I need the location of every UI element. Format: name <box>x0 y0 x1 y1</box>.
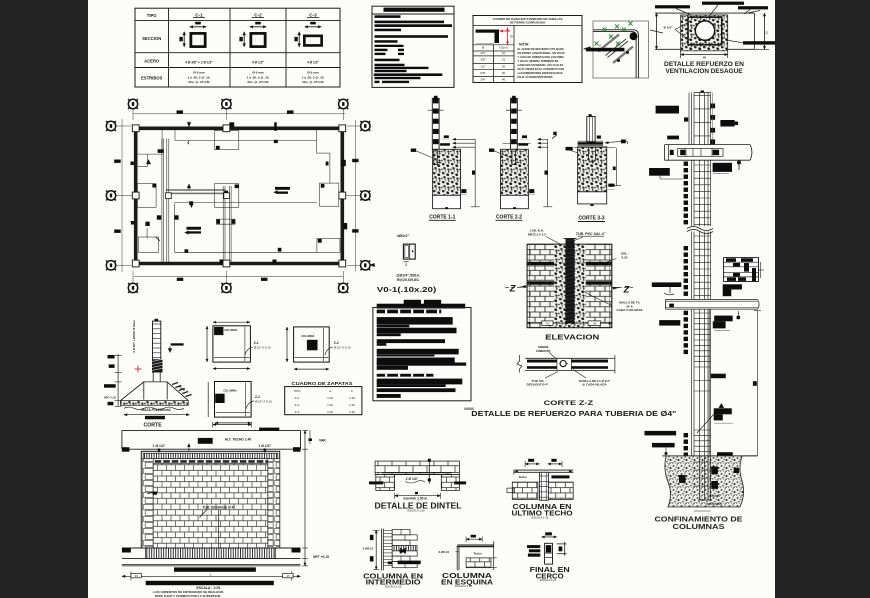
svg-text:Y LOSA DE CIMENTACION, COLUMNA: Y LOSA DE CIMENTACION, COLUMNA <box>518 55 565 59</box>
plan npt label right room <box>275 187 290 190</box>
svg-text:COLUMNAS: COLUMNAS <box>673 524 725 531</box>
esquina right dim line <box>493 541 495 570</box>
svg-text:CORTE: CORTE <box>144 422 163 428</box>
plan left dim squares <box>114 160 121 163</box>
svg-text:Z-1: Z-1 <box>295 396 300 400</box>
tall section column bars lower <box>691 309 693 456</box>
CORTE 3-3 column stem <box>587 117 595 143</box>
svg-text:NOTA:: NOTA: <box>519 43 529 47</box>
CORTE 2-2 right dimension line <box>547 139 549 207</box>
CORTE 2-2 solera black cap <box>518 143 528 146</box>
elevacion solera bands <box>527 262 612 265</box>
panel top hatched band <box>143 453 278 459</box>
svg-text:COLUMNA: COLUMNA <box>223 388 236 392</box>
CORTE 3-3 cap bar <box>578 142 604 145</box>
vent left dimension line <box>656 13 658 49</box>
panel right dimension line <box>304 430 306 566</box>
CORTE 2-2 dowels into footing <box>511 149 513 164</box>
svg-text:1.20: 1.20 <box>349 410 355 414</box>
tall section soil stirrup squares <box>711 466 718 474</box>
svg-text:Ø 6 mm: Ø 6 mm <box>252 71 264 75</box>
corte zz end extension lines <box>608 357 615 359</box>
svg-text:1 a .05, 5 @ .10,: 1 a .05, 5 @ .10, <box>302 75 325 79</box>
svg-text:Z: Z <box>509 284 517 295</box>
section sketch C-2 <box>250 26 266 28</box>
white drawing sheet <box>88 0 775 598</box>
svg-text:1 a .05, 5 @ .10,: 1 a .05, 5 @ .10, <box>247 75 270 79</box>
plan bottom-right footing rect <box>317 238 340 252</box>
panel outer frame <box>141 451 279 548</box>
svg-text:1.00: 1.00 <box>327 410 333 414</box>
tall section below lower beam labels <box>659 320 680 326</box>
svg-text:1 a .05, 5 @ .10,: 1 a .05, 5 @ .10, <box>188 75 211 79</box>
final cerco column <box>545 543 553 564</box>
svg-text:SECCION: SECCION <box>142 36 161 41</box>
zapata Z-3 column black square <box>307 340 318 351</box>
CORTE 3-3 footing-side black bar <box>608 184 614 187</box>
svg-text:ESCALA 1:25: ESCALA 1:25 <box>532 515 549 519</box>
svg-text:.15: .15 <box>286 574 290 578</box>
panel top dimension arrow <box>213 424 252 426</box>
svg-text:40: 40 <box>502 78 506 82</box>
dintel lintel bar <box>382 472 452 474</box>
plan npt label left room <box>187 227 202 230</box>
plan grid lines <box>132 109 134 120</box>
left corte footing slope right with hatch <box>167 382 188 401</box>
svg-text:1.20: 1.20 <box>349 396 355 400</box>
panel top black label <box>198 438 213 444</box>
final cerco right bracket symbol <box>557 543 567 545</box>
svg-text:TUB. PVC SAL 4": TUB. PVC SAL 4" <box>576 232 606 236</box>
plan left double-line flank squares <box>157 215 161 219</box>
svg-text:NFC=-1.20: NFC=-1.20 <box>104 397 116 400</box>
panel ground lines <box>122 547 301 549</box>
svg-text:Techo: Techo <box>473 552 482 556</box>
corner bar horizontal leg <box>593 29 633 31</box>
CORTE 2-2 left label <box>489 149 494 152</box>
svg-text:SE PLASMAN EN EL CONCRETO CON: SE PLASMAN EN EL CONCRETO CON <box>518 67 565 71</box>
svg-text:1.00: 1.00 <box>327 396 333 400</box>
ultimo techo left bricks <box>512 482 538 499</box>
left corte bottom dimension <box>124 414 190 416</box>
corner dowel end dots <box>626 51 629 54</box>
svg-text:2: 2 <box>405 263 407 267</box>
panel bottom dimension line <box>122 575 301 577</box>
svg-text:MAZA P=100k/cm2: MAZA P=100k/cm2 <box>141 408 170 412</box>
elevacion bottom dimension boxes <box>527 322 612 324</box>
svg-text:5/8": 5/8" <box>480 71 485 75</box>
CORTE 3-3 left label <box>566 147 573 151</box>
svg-text:Z-2: Z-2 <box>255 395 260 399</box>
corte zz bottom black band <box>527 366 557 369</box>
plan grid markers left column <box>106 121 115 130</box>
svg-text:3/4": 3/4" <box>480 78 485 82</box>
left corte underground squiggle <box>124 407 184 410</box>
left corte down arrow and label <box>171 343 184 345</box>
vent duct circle <box>695 21 714 40</box>
final cerco left text lines <box>527 545 540 548</box>
panel left Y tick <box>148 492 156 494</box>
svg-text:ESCALA 1:25: ESCALA 1:25 <box>540 578 557 582</box>
panel right dim extra vline <box>309 430 311 444</box>
svg-text:Techo: Techo <box>518 475 527 479</box>
CORTE 3-3 right annotation <box>621 140 626 144</box>
dintel right pier bricks <box>441 475 459 491</box>
spec notes box <box>372 6 454 87</box>
CORTE 2-2 ground line <box>506 109 522 111</box>
spec notes text bars <box>375 15 401 18</box>
plan center white node square <box>224 193 230 199</box>
spec2 box frame <box>373 308 471 401</box>
plan bottom dimension line <box>134 276 343 278</box>
ultimo techo center column ladder <box>539 472 548 500</box>
intermedio left dim line <box>375 530 377 569</box>
corte zz wall lines <box>525 357 608 359</box>
CORTE 2-2 footing stipple <box>501 149 529 195</box>
svg-text:.25: .25 <box>765 31 769 35</box>
svg-text:G(cm): G(cm) <box>499 46 507 50</box>
svg-text:0.20: 0.20 <box>621 255 627 259</box>
svg-text:10: 10 <box>502 51 506 55</box>
CORTE 2-2 footing bottom tick <box>513 207 516 209</box>
CORTE 3-3 dowel hook <box>589 147 596 162</box>
intermedio small labels <box>388 562 392 565</box>
svg-text:CADA 3 HILADAS: CADA 3 HILADAS <box>616 308 642 312</box>
svg-text:2 Ø6.10: 2 Ø6.10 <box>363 546 374 550</box>
CORTE 3-3 footing stipple <box>578 147 607 192</box>
dintel side labels <box>369 481 383 484</box>
panel center up arrow <box>188 445 190 452</box>
esquina wall verticals <box>456 546 458 571</box>
svg-text:CORTE 3-3: CORTE 3-3 <box>578 216 604 222</box>
ganchos sub-table <box>493 45 495 83</box>
CORTE 3-3 right dimension line <box>616 148 618 186</box>
ultimo techo top dim squares <box>528 459 534 462</box>
section sketch C-3 <box>305 26 321 28</box>
svg-text:3/8": 3/8" <box>480 58 485 62</box>
CORTE 2-2 level line <box>503 143 531 145</box>
corte zz top black band <box>527 360 557 363</box>
tall section column bars mid <box>691 160 693 226</box>
spec2 header bars above box <box>404 300 421 305</box>
detail pointer arrow <box>584 47 591 51</box>
corner bend filled circle <box>630 32 638 40</box>
CORTE 1-1 right dimension line <box>474 139 476 207</box>
svg-text:30: 30 <box>502 71 506 75</box>
tall section mid-left long label <box>652 282 682 287</box>
svg-text:TIPO: TIPO <box>147 13 158 18</box>
zapata Z-2 bottom dimension <box>215 422 251 424</box>
tall section label right upper <box>720 120 734 127</box>
plan top-mid black square above wall <box>229 122 234 126</box>
ultimo techo dim lines <box>525 463 539 465</box>
svg-text:2 Ø6.10: 2 Ø6.10 <box>438 550 449 554</box>
tall section column bars lower-mid <box>691 232 693 300</box>
elevacion concrete stipple around pipe <box>554 244 586 328</box>
zapata Z-2 outline <box>215 382 252 418</box>
CORTE 1-1 footing below <box>433 195 461 208</box>
plan outer wall left <box>134 127 138 266</box>
plan center bracket node <box>216 218 235 220</box>
plan interior left double vertical lines <box>161 139 163 264</box>
svg-text:CORTE 2-2: CORTE 2-2 <box>496 214 522 220</box>
spec notes title bar <box>384 8 445 12</box>
zapata Z-1 bottom dimension <box>213 368 250 370</box>
vent right dimension line <box>754 13 756 49</box>
svg-text:ESCALA 1:25: ESCALA 1:25 <box>385 584 402 588</box>
svg-text:Rto. @ .25 C/E: Rto. @ .25 C/E <box>302 80 323 84</box>
svg-text:1.00: 1.00 <box>327 403 333 407</box>
svg-text:NPT +0.15: NPT +0.15 <box>313 555 329 559</box>
plan outer wall right <box>340 127 344 266</box>
tall section bars into soil <box>699 456 701 500</box>
corner detail label <box>586 48 625 52</box>
tall section rung ticks in soil <box>693 461 711 463</box>
svg-text:15: 15 <box>502 58 506 62</box>
plan wall face ticks left <box>131 162 134 166</box>
final cerco top dim <box>545 532 552 535</box>
svg-text:.15: .15 <box>134 574 138 578</box>
plan left mid room rect <box>137 184 156 208</box>
plan partition hline upper <box>175 140 317 142</box>
left corte stippled base <box>120 401 188 406</box>
tall section right dimension line <box>756 311 758 456</box>
elevacion bottom edge <box>527 327 612 329</box>
svg-text:CIMIENTO: CIMIENTO <box>536 349 551 353</box>
panel beam line black bar right <box>259 428 279 431</box>
svg-text:ALT. TECHO 2.40: ALT. TECHO 2.40 <box>225 438 252 442</box>
tall section lower beam <box>666 299 758 301</box>
svg-text:DESAGUE Ø 4": DESAGUE Ø 4" <box>527 383 550 387</box>
svg-text:Z: Z <box>623 285 631 296</box>
plan section tick crossing top wall <box>274 122 277 131</box>
svg-text:Ø 1/4": Ø 1/4" <box>664 26 673 30</box>
tall section rungs upper <box>694 94 711 96</box>
zapata Z-2 inner lines <box>245 383 247 417</box>
plan right partition steps <box>316 129 318 153</box>
svg-text:@ CADA HILADA: @ CADA HILADA <box>582 383 607 387</box>
zapata Z-3 left dimension <box>286 327 288 362</box>
plan right lower footing rect <box>320 183 339 206</box>
svg-text:Rto. @ .25 C/E: Rto. @ .25 C/E <box>188 80 209 84</box>
svg-text:Y VIGAS, DEBERA TERMINAR EN: Y VIGAS, DEBERA TERMINAR EN <box>518 59 559 63</box>
dintel center line and squares <box>428 459 430 484</box>
corte zz left break mark <box>517 355 522 373</box>
tall section column vertical bars upper <box>688 93 690 145</box>
svg-text:.50: .50 <box>545 321 549 325</box>
plan bottom corridor lines <box>175 202 317 204</box>
tall section left labels above ground <box>645 431 677 436</box>
svg-text:COLUMNA: COLUMNA <box>301 334 314 338</box>
tall section L-shaped label <box>723 284 742 289</box>
zapata Z-3 bottom dimension <box>294 368 329 370</box>
plan grid markers bottom row <box>128 283 137 292</box>
svg-text:C-1: C-1 <box>195 13 203 18</box>
zapata Z-2 column black square <box>215 394 224 403</box>
plan outer wall top <box>134 127 346 131</box>
CORTE 1-1 footing side square <box>461 189 466 193</box>
corner green x marks <box>603 28 607 32</box>
svg-text:Ø1/2" A 0.10: Ø1/2" A 0.10 <box>255 399 272 403</box>
svg-text:C-2: C-2 <box>254 13 262 18</box>
plan bottom wall black ticks <box>220 260 224 264</box>
svg-text:GANCHOS STANDARD. LOS CUALES: GANCHOS STANDARD. LOS CUALES <box>518 63 564 67</box>
CORTE 2-2 column pole <box>511 98 518 149</box>
tall section left stirrup squares lower <box>684 311 688 315</box>
zapata Z-1 left dimension <box>206 326 208 362</box>
plan center hline node white square <box>166 193 172 199</box>
section sketch C-1 <box>190 26 206 28</box>
plan section arrows crossing top wall <box>187 122 191 127</box>
panel top beam lines <box>122 429 301 431</box>
svg-text:ACERO: ACERO <box>144 59 160 64</box>
tall section mini table right <box>724 258 759 282</box>
tall section right vertical line lower <box>708 309 710 456</box>
svg-text:TUB. DESAGUE Ø 4": TUB. DESAGUE Ø 4" <box>202 505 235 509</box>
tall section break squiggle <box>687 227 713 231</box>
left corte pedestal <box>152 373 154 382</box>
svg-text:EN EL CUADRO MOSTRADO.: EN EL CUADRO MOSTRADO. <box>518 75 554 79</box>
svg-text:DETALLE DE REFUERZO PARA TUBER: DETALLE DE REFUERZO PARA TUBERIA DE Ø4" <box>471 409 677 418</box>
svg-text:PARA FIJAR Y AFIRMAR POR LA SU: PARA FIJAR Y AFIRMAR POR LA SUPERFICIE <box>155 594 221 598</box>
plan corner junction squares <box>132 125 139 132</box>
corner diagonal dowels <box>598 35 619 52</box>
ganchos table frame <box>473 16 582 83</box>
corner bar bend curve <box>633 30 638 78</box>
panel top beam end ticks <box>122 447 129 452</box>
CORTE 3-3 footing below <box>578 192 607 204</box>
svg-text:CUADRO DE ZAPATAS: CUADRO DE ZAPATAS <box>292 381 354 387</box>
vent label alambre right <box>743 41 775 44</box>
CORTE 2-2 footing below <box>501 195 529 208</box>
left corte crosshatch block <box>152 360 163 373</box>
vent far right dimension line <box>764 13 766 49</box>
tall section ground line <box>662 455 757 457</box>
svg-text:Z-3: Z-3 <box>334 341 339 345</box>
intermedio hatch band with bowtie <box>392 546 417 551</box>
svg-text:2 Ø 1/4": 2 Ø 1/4" <box>406 477 419 481</box>
svg-text:max/min 1.50 m.: max/min 1.50 m. <box>403 496 428 500</box>
elevacion wall side edges <box>526 244 528 328</box>
plan interior center double horizontal lines <box>166 189 225 191</box>
panel sobrecimiento hatched band <box>146 548 276 558</box>
CORTE 3-3 stem side square <box>597 136 601 139</box>
svg-text:.50: .50 <box>592 321 596 325</box>
tall section below-beam labels <box>649 168 670 176</box>
vent concrete stippled block <box>681 15 728 51</box>
svg-text:C-3: C-3 <box>309 13 317 18</box>
zapata Z-2 left dimension <box>207 382 209 417</box>
svg-text:Ø1/2" A 0.10: Ø1/2" A 0.10 <box>334 346 351 350</box>
plan top dimension line <box>133 113 345 115</box>
spec2 small gray bar below <box>464 408 474 411</box>
vent bottom dimension <box>681 54 728 56</box>
svg-text:Ø 6 mm: Ø 6 mm <box>193 71 205 75</box>
svg-text:2 Ø 3/8" + ESTR. Ø 6mm: 2 Ø 3/8" + ESTR. Ø 6mm <box>132 320 136 353</box>
svg-text:1/2": 1/2" <box>480 64 485 68</box>
elevacion section cut wings <box>505 286 527 288</box>
left corte black bar below dim <box>145 416 165 420</box>
plan interior center double vertical lines <box>222 186 224 264</box>
tall section soil stipple <box>665 456 744 507</box>
vent inner duct box <box>688 17 722 45</box>
zapata Z-1 column black square <box>214 327 223 335</box>
plan left grid vertical line <box>121 119 123 272</box>
svg-text:.40: .40 <box>702 55 706 59</box>
svg-text:COLUMNA: COLUMNA <box>224 328 237 332</box>
plan top-right footing rect <box>215 131 239 150</box>
tall section upper beam <box>665 144 751 146</box>
tall section label left small <box>667 136 679 140</box>
svg-text:EL ACERO DE REFUERZO UTILIZADO: EL ACERO DE REFUERZO UTILIZADO <box>518 47 564 51</box>
left corte footing slope left <box>120 382 143 401</box>
svg-text:4 Ø 3/8" + 2 Ø 1/2": 4 Ø 3/8" + 2 Ø 1/2" <box>185 61 213 65</box>
CORTE 1-1 dowels into footing <box>433 149 435 164</box>
dintel center small square <box>415 492 418 494</box>
svg-text:Rto. @ .25 C/E: Rto. @ .25 C/E <box>247 80 268 84</box>
vent wall top and bottom lines <box>655 12 754 14</box>
vent label concreto <box>655 5 690 8</box>
svg-text:ESTRIBOS: ESTRIBOS <box>141 76 163 81</box>
tall section right stirrup squares upper <box>710 104 715 109</box>
CORTE 2-2 footing side square <box>529 189 534 193</box>
svg-text:Z-1: Z-1 <box>254 341 259 345</box>
svg-text:CORTE 1-1: CORTE 1-1 <box>429 214 455 220</box>
CORTE 3-3 under-cap line <box>574 147 616 149</box>
svg-text:VENTILACION DESAGUE: VENTILACION DESAGUE <box>666 68 744 75</box>
tall section left stirrup squares mid <box>684 162 688 166</box>
elevacion wall top edge <box>527 243 612 245</box>
left corte column pole <box>153 321 161 360</box>
svg-text:EN FORMA LONGITUDINAL, EN VIGA: EN FORMA LONGITUDINAL, EN VIGAS <box>518 51 565 55</box>
dintel dimension line <box>395 495 441 497</box>
svg-text:MEZCLA 1:5: MEZCLA 1:5 <box>528 233 546 237</box>
plan section arrows at center lines <box>187 184 191 190</box>
beam section bottom tick <box>404 261 409 263</box>
plan left room A partition <box>137 153 163 155</box>
svg-text:ESCALA 1:25: ESCALA 1:25 <box>455 584 472 588</box>
CORTE 1-1 right annotation arrows <box>453 138 476 140</box>
plan left lower room rect <box>138 237 158 252</box>
panel long black bar bottom <box>146 581 274 585</box>
svg-text:G: G <box>510 35 513 39</box>
svg-text:CONFINAMIENTO DE: CONFINAMIENTO DE <box>655 516 743 523</box>
zapata Z-3 inner lines <box>323 328 325 361</box>
svg-text:4 Ø 1/2": 4 Ø 1/2" <box>252 61 264 65</box>
beam section rectangle <box>403 244 415 259</box>
vent label tubo pvc <box>702 2 744 5</box>
svg-text:TIPO: TIPO <box>293 389 301 393</box>
zapata Z-1 inner lines <box>244 327 246 361</box>
CORTE 2-2 right annotation arrows <box>538 138 548 140</box>
CORTE 1-1 solera black cap <box>440 143 450 146</box>
svg-text:4 Ø 1/2": 4 Ø 1/2" <box>307 61 319 65</box>
ultimo techo right bricks <box>548 482 574 499</box>
CORTE 3-3 footing bottom tick <box>591 204 594 206</box>
svg-text:CORTE Z-Z: CORTE Z-Z <box>544 400 594 407</box>
svg-text:ESCALA 1:25: ESCALA 1:25 <box>408 508 426 512</box>
intermedio brick stack <box>392 530 410 535</box>
plan right-center footing rect <box>215 184 239 208</box>
panel black bar mid <box>174 567 256 571</box>
svg-text:LAS DIMENSIONES ESPECIFICADAS: LAS DIMENSIONES ESPECIFICADAS <box>518 71 563 75</box>
left corte left dimension line <box>117 354 119 407</box>
svg-text:Ø 6 mm: Ø 6 mm <box>307 71 319 75</box>
zapata Z-1 outline <box>213 326 251 362</box>
ultimo techo roof double line <box>514 469 573 471</box>
svg-text:1/4": 1/4" <box>480 51 485 55</box>
intermedio wall double line <box>381 529 383 571</box>
